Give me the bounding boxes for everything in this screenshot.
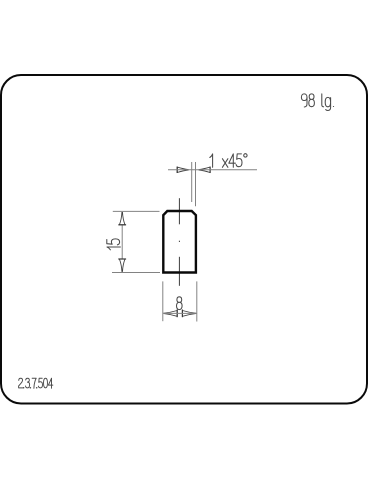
dim 15 dimension line (121, 225, 123, 258)
note text 98 lg. (301, 94, 333, 111)
dim 8 extension line left (162, 281, 164, 321)
chamfer label 1 x45deg (210, 154, 247, 168)
drawing number 2.3.7.504 (19, 378, 53, 388)
dim 15 arrow up (118, 212, 126, 224)
drawing frame (1, 75, 367, 404)
dim 15 extension line bottom (112, 272, 160, 274)
chamfer extension line left (191, 162, 193, 202)
dim 8 extension line right (196, 281, 198, 321)
chamfer arrow left (177, 167, 188, 173)
dim 8 arrow left (164, 310, 177, 318)
chamfer dimension line (168, 169, 257, 171)
part centerline (178, 198, 180, 286)
dim 15 extension line top (113, 210, 160, 212)
dim 15 arrow down (118, 259, 126, 271)
chamfer arrow right (199, 167, 210, 173)
dim 15 text (rotated) (107, 239, 121, 250)
dim 8 dimension line (163, 312, 197, 314)
chamfer extension line right (195, 162, 197, 206)
dim 8 arrow right (182, 310, 195, 318)
part outline (key cross-section with chamfered top corners) (163, 211, 196, 273)
dim 8 text (177, 297, 183, 310)
